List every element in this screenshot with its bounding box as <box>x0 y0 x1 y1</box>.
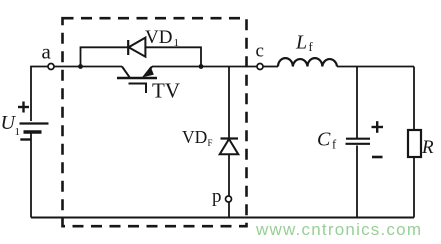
wire right branch upper <box>413 67 415 131</box>
wire transistor to node c <box>152 66 257 68</box>
transistor TV <box>117 67 180 103</box>
wire capacitor branch upper <box>356 67 358 139</box>
label U1 <box>1 112 21 138</box>
bottom rail wire <box>31 217 414 219</box>
battery plus sign <box>18 102 29 113</box>
wire resistor to bottom rail <box>413 157 415 218</box>
svg-text:F: F <box>208 138 213 148</box>
node c <box>256 41 264 70</box>
dashed converter box <box>63 18 247 226</box>
node p <box>212 186 232 207</box>
junction dot left riser <box>78 64 83 69</box>
resistor R <box>408 130 434 158</box>
diode VD1 <box>128 27 179 57</box>
svg-text:p: p <box>212 186 222 207</box>
wire battery to bottom rail <box>30 133 32 218</box>
inductor Lf <box>278 32 337 67</box>
diode VDF <box>182 127 238 154</box>
wire inductor to top-right corner <box>337 66 414 68</box>
svg-text:VD: VD <box>182 127 207 147</box>
svg-text:a: a <box>42 40 52 64</box>
wire top-left from source to node a <box>31 67 48 122</box>
svg-text:TV: TV <box>152 79 180 103</box>
capacitor minus sign <box>372 156 383 159</box>
battery minus sign <box>20 138 30 140</box>
svg-text:1: 1 <box>174 37 180 49</box>
battery U1 positive plate <box>20 122 49 124</box>
junction dot right riser <box>199 64 204 69</box>
wire VD1 branch (risers and top run) <box>81 47 202 66</box>
wire node p to bottom rail <box>228 202 230 218</box>
svg-text:R: R <box>421 137 434 158</box>
wire capacitor to bottom rail <box>356 146 358 218</box>
svg-text:www.cntronics.com: www.cntronics.com <box>255 220 421 239</box>
svg-text:C: C <box>317 129 331 151</box>
svg-text:VD: VD <box>145 27 172 48</box>
wire node c to inductor <box>263 66 278 68</box>
svg-text:c: c <box>256 41 264 62</box>
svg-text:L: L <box>295 32 307 54</box>
capacitor Cf <box>317 129 370 152</box>
capacitor plus sign <box>372 121 384 133</box>
wire node a to transistor <box>54 66 122 68</box>
wire VDF branch upper <box>228 67 230 139</box>
watermark <box>255 220 421 239</box>
battery U1 negative plate <box>24 130 42 133</box>
wire VDF to node p <box>228 154 230 196</box>
node a <box>42 40 55 70</box>
svg-text:1: 1 <box>15 126 21 138</box>
